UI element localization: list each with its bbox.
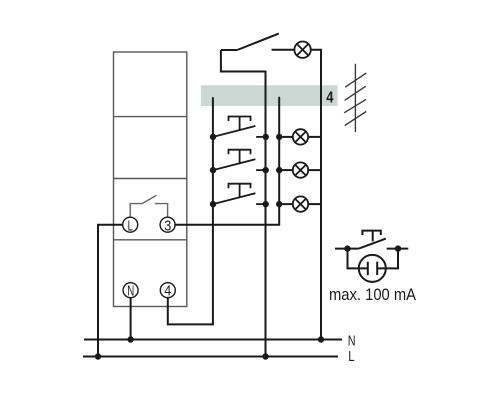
junction dot rail A row3 [210, 201, 216, 207]
terminal N [123, 283, 138, 298]
relay contact inside device [130, 195, 167, 217]
N line [84, 339, 342, 341]
lamp E1 [279, 129, 321, 144]
junction dot rail B row1 [263, 134, 269, 140]
wire from terminal N to N line [130, 298, 132, 340]
glow lamp in push-button [348, 249, 399, 282]
svg-text:N: N [348, 332, 356, 349]
wire from terminal 4 up to push-button rail A [168, 98, 213, 324]
junction dot rail B row2 [263, 167, 269, 173]
wire from terminal L to bottom L line [98, 225, 123, 357]
terminal L [123, 217, 138, 232]
detail push-button with glow lamp [335, 231, 408, 249]
device box outline [114, 52, 187, 307]
wall hatching [344, 64, 366, 132]
top lamp E0 [294, 42, 310, 58]
wall flush-mount band [201, 85, 338, 106]
junction dot rail D on N line [318, 336, 324, 342]
svg-text:3: 3 [164, 218, 171, 234]
junction dot rail B on L line [262, 353, 268, 359]
junction dot rail B row3 [263, 201, 269, 207]
L line [83, 356, 338, 358]
junction dot rail C row1 [276, 134, 282, 140]
push-button S3 [213, 184, 266, 204]
wire rail D lamps return to N line [311, 50, 321, 340]
terminal 3 [160, 217, 175, 232]
junction dot rail C row3 [276, 201, 282, 207]
svg-text:4: 4 [326, 90, 333, 107]
push-button S2 [213, 150, 266, 170]
top switch S0 [221, 34, 294, 50]
svg-text:L: L [348, 348, 354, 365]
lamp E3 [279, 196, 321, 211]
wire rail C from band to terminal 3 [175, 98, 279, 225]
junction dot L wire on L line [95, 353, 101, 359]
terminal 4 [160, 283, 175, 298]
wire rail B from top switch down to L line [221, 50, 266, 357]
detail junction dot left [344, 245, 350, 251]
junction dot N wire on N line [127, 336, 133, 342]
detail junction dot right [395, 245, 401, 251]
push-button S1 [213, 117, 266, 137]
svg-text:L: L [128, 218, 133, 234]
junction dot rail A row1 [210, 134, 216, 140]
svg-text:N: N [127, 283, 134, 299]
junction dot rail A row2 [210, 167, 216, 173]
junction dot rail C row2 [276, 167, 282, 173]
svg-text:max. 100 mA: max. 100 mA [329, 285, 417, 304]
lamp E2 [279, 162, 321, 177]
